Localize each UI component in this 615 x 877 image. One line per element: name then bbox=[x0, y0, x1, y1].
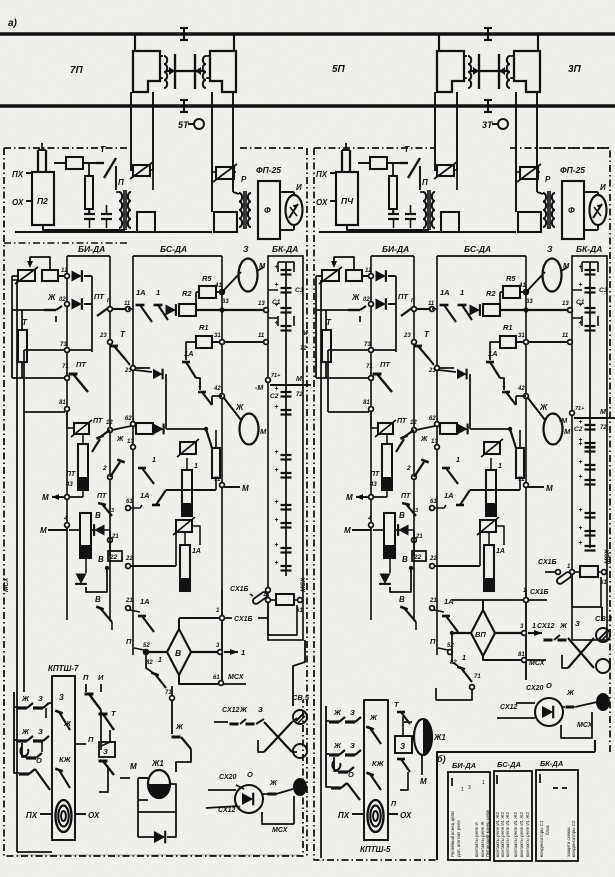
meter I bbox=[590, 195, 607, 225]
svg-text:ПТ: ПТ bbox=[94, 292, 105, 301]
insulated joint marks bbox=[183, 27, 185, 41]
wire row 81 bbox=[24, 411, 65, 413]
svg-text:КЖ: КЖ bbox=[59, 755, 72, 764]
vertical resistor black PT bbox=[382, 444, 392, 490]
svg-text:КПТШ-5: КПТШ-5 bbox=[360, 845, 391, 854]
contact under Zh bbox=[44, 309, 56, 311]
terminal 13 bbox=[264, 308, 269, 313]
svg-text:23: 23 bbox=[99, 333, 107, 339]
diode at 23 row bbox=[135, 370, 152, 372]
panel border left bbox=[4, 148, 303, 856]
svg-text:конденсаторы С2: конденсаторы С2 bbox=[571, 820, 576, 857]
MCX row right bbox=[522, 658, 527, 663]
svg-text:71+: 71+ bbox=[271, 373, 281, 379]
contact 1A mid bbox=[186, 342, 196, 360]
adjustable resistor PT bbox=[378, 423, 393, 434]
svg-text:R2: R2 bbox=[486, 289, 496, 298]
svg-text:Ж: Ж bbox=[566, 688, 575, 697]
feedback arrow bbox=[30, 257, 50, 270]
wire VP top to CX1B bbox=[482, 600, 484, 610]
KPTSh-5 motor rings bbox=[368, 800, 384, 832]
svg-text:31: 31 bbox=[214, 333, 221, 339]
SV hatched circle bbox=[293, 710, 307, 724]
svg-text:З: З bbox=[243, 244, 249, 254]
vertical from diode bbox=[165, 374, 167, 429]
svg-text:Ж: Ж bbox=[21, 727, 30, 736]
KPTSh-7 box bbox=[52, 676, 75, 840]
svg-text:О: О bbox=[546, 681, 552, 690]
svg-text:М: М bbox=[130, 762, 137, 771]
transformer R windings bbox=[239, 193, 242, 227]
terminal 41 bbox=[220, 290, 225, 295]
wire 73 row bbox=[373, 349, 396, 351]
terminal 33 bbox=[219, 307, 224, 312]
svg-text:23: 23 bbox=[124, 368, 132, 374]
contact 1A bbox=[440, 304, 449, 307]
wires Zh1 bbox=[138, 778, 148, 800]
svg-text:В: В bbox=[175, 648, 181, 658]
svg-text:П: П bbox=[88, 735, 94, 744]
terminal 81 bbox=[369, 407, 374, 412]
svg-text:22: 22 bbox=[109, 554, 118, 561]
wire v1 bbox=[395, 276, 397, 352]
terminal 12 bbox=[369, 274, 374, 279]
svg-text:1: 1 bbox=[241, 648, 245, 657]
svg-text:73: 73 bbox=[364, 342, 371, 348]
wire left drop bbox=[12, 275, 18, 277]
feedback arrow bbox=[334, 257, 354, 270]
choke transformer left box bbox=[133, 51, 160, 92]
svg-text:Ж: Ж bbox=[351, 293, 360, 302]
svg-text:Ж: Ж bbox=[116, 436, 124, 443]
svg-text:1А: 1А bbox=[496, 548, 505, 555]
svg-text:3: 3 bbox=[59, 692, 64, 702]
svg-text:4: 4 bbox=[63, 516, 68, 522]
wire 71 down right bbox=[436, 688, 472, 700]
svg-text:П: П bbox=[422, 178, 428, 187]
svg-text:4: 4 bbox=[367, 516, 372, 522]
svg-text:12: 12 bbox=[365, 268, 372, 274]
svg-text:Ж: Ж bbox=[369, 713, 378, 722]
svg-text:Ж: Ж bbox=[175, 722, 184, 731]
contact 2 bbox=[414, 462, 424, 477]
BK bank spine wire bbox=[589, 262, 591, 548]
M exit mid bbox=[224, 486, 240, 488]
svg-text:Ж: Ж bbox=[539, 403, 548, 412]
svg-text:+: + bbox=[578, 282, 582, 289]
contact V2 bbox=[400, 607, 408, 610]
svg-text:П: П bbox=[430, 637, 436, 646]
contact under Zh bbox=[348, 309, 360, 311]
node under bbox=[409, 566, 413, 570]
capacitor above feed box bbox=[341, 150, 343, 172]
svg-text:21: 21 bbox=[429, 598, 437, 604]
terminal 13 bbox=[568, 308, 573, 313]
svg-text:СХ20: СХ20 bbox=[526, 685, 544, 692]
arrow right VP bbox=[528, 632, 542, 634]
wire row 618 bbox=[130, 610, 140, 612]
resistor input bbox=[42, 270, 58, 281]
svg-text:Релейный конец цепи: Релейный конец цепи bbox=[449, 811, 455, 857]
wire 31 to BK bbox=[224, 341, 268, 343]
svg-text:контакты реле И1 Ж2: контакты реле И1 Ж2 bbox=[525, 812, 530, 857]
svg-text:+: + bbox=[274, 542, 278, 549]
diode d1 bbox=[376, 270, 386, 282]
svg-text:71+: 71+ bbox=[575, 406, 585, 412]
svg-text:И: И bbox=[296, 183, 302, 192]
svg-text:СХ1Б: СХ1Б bbox=[230, 586, 249, 593]
svg-text:З: З bbox=[350, 708, 355, 717]
svg-text:СХ1Б: СХ1Б bbox=[530, 589, 549, 596]
svg-text:+: + bbox=[274, 499, 278, 506]
wire 62 row bbox=[416, 426, 435, 430]
terminal 31 bbox=[220, 340, 225, 345]
svg-text:7П: 7П bbox=[70, 65, 84, 76]
wires down from joint bbox=[434, 92, 436, 171]
terminal 21 bbox=[108, 538, 113, 543]
svg-text:ПХ: ПХ bbox=[338, 811, 350, 820]
svg-text:5П: 5П bbox=[332, 64, 346, 75]
SV open circle bbox=[293, 744, 307, 758]
wire row 71 bbox=[12, 377, 65, 379]
svg-text:R1: R1 bbox=[199, 323, 209, 332]
svg-text:31: 31 bbox=[518, 333, 525, 339]
wires to VP diamond bbox=[452, 632, 471, 634]
filter to meter wires bbox=[584, 191, 598, 193]
terminal 71 bk bbox=[570, 411, 575, 416]
svg-text:1: 1 bbox=[198, 382, 202, 389]
svg-text:контакты реле И1 Ж2: контакты реле И1 Ж2 bbox=[513, 812, 518, 857]
panel divider dashed bbox=[4, 242, 128, 244]
wire Z to 41 bbox=[224, 272, 241, 290]
svg-text:72: 72 bbox=[300, 346, 307, 352]
long rails left panel bbox=[16, 280, 18, 852]
svg-text:ПТ: ПТ bbox=[401, 493, 411, 500]
vertical resistor T bbox=[322, 330, 331, 362]
svg-text:22: 22 bbox=[413, 554, 422, 561]
BK-DA capacitor C3 bbox=[277, 262, 279, 272]
svg-text:Ж: Ж bbox=[559, 621, 568, 630]
svg-text:СХ20: СХ20 bbox=[219, 774, 237, 781]
svg-text:+: + bbox=[274, 517, 278, 524]
resistor right of 62 bbox=[440, 423, 457, 434]
svg-text:В: В bbox=[95, 511, 101, 520]
contact PT-11 bbox=[112, 308, 126, 310]
block BI-DA right edge bbox=[109, 256, 111, 620]
svg-text:43: 43 bbox=[369, 482, 377, 488]
svg-text:БС-ДА: БС-ДА bbox=[497, 760, 521, 769]
wires down from joint bbox=[130, 92, 132, 171]
svg-text:23: 23 bbox=[403, 333, 411, 339]
terminal PT12 bbox=[108, 428, 113, 433]
transformer vertical 2 black bbox=[484, 545, 494, 591]
svg-text:контакты реле И1 Ж2: контакты реле И1 Ж2 bbox=[519, 812, 524, 857]
table BK-DA contents bbox=[539, 774, 541, 783]
track side box left bbox=[137, 212, 155, 232]
resistor top bbox=[66, 157, 83, 169]
svg-text:71: 71 bbox=[366, 364, 373, 370]
transformer P windings bbox=[423, 192, 426, 228]
svg-text:-М: -М bbox=[255, 385, 263, 392]
svg-text:Питающий конец цепи: Питающий конец цепи bbox=[484, 810, 490, 857]
svg-text:Ж: Ж bbox=[269, 778, 278, 787]
terminal 02 bbox=[65, 302, 70, 307]
svg-text:И: И bbox=[98, 673, 104, 682]
contact PT 71 bbox=[69, 373, 78, 376]
terminal 22 box bbox=[108, 551, 122, 561]
adjustable resistor track right bbox=[216, 167, 234, 179]
svg-text:БК-ДА: БК-ДА bbox=[576, 244, 602, 254]
svg-text:ОХ: ОХ bbox=[88, 811, 100, 820]
svg-text:СХ1Б: СХ1Б bbox=[538, 559, 557, 566]
svg-text:М: М bbox=[564, 427, 571, 436]
adjustable resistor input bbox=[18, 270, 35, 281]
svg-text:+: + bbox=[274, 449, 278, 456]
svg-text:02: 02 bbox=[363, 297, 370, 303]
svg-text:ПТ: ПТ bbox=[97, 493, 107, 500]
diode row 62 bbox=[458, 424, 468, 435]
wires to V diamond bbox=[148, 651, 167, 653]
M 72 exit bbox=[574, 417, 607, 419]
contact T bbox=[96, 162, 104, 164]
box below resistor bbox=[572, 574, 601, 607]
resistor right of 62 bbox=[136, 423, 153, 434]
svg-text:3Т: 3Т bbox=[482, 120, 494, 130]
svg-text:Ж: Ж bbox=[235, 403, 244, 412]
transformer vertical 1 black bbox=[182, 470, 192, 516]
diode lower bbox=[75, 574, 87, 584]
svg-text:СХ12: СХ12 bbox=[222, 707, 240, 714]
svg-text:ПХ: ПХ bbox=[316, 170, 328, 179]
svg-text:21: 21 bbox=[111, 534, 119, 540]
table BS-DA contents bbox=[496, 775, 498, 784]
svg-text:О: О bbox=[247, 770, 253, 779]
svg-text:З: З bbox=[258, 705, 263, 714]
vertical resistor black PT bbox=[78, 444, 88, 490]
svg-text:М: М bbox=[546, 484, 553, 493]
svg-text:+: + bbox=[274, 302, 278, 309]
diode d3 bbox=[470, 304, 480, 316]
transformer vertical 2 black bbox=[180, 545, 190, 591]
svg-text:Т: Т bbox=[404, 144, 410, 154]
svg-text:контакты реле И: контакты реле И bbox=[474, 822, 479, 857]
svg-text:БК-ДА: БК-ДА bbox=[272, 244, 298, 254]
block BK-DA box bbox=[572, 256, 607, 640]
svg-text:З: З bbox=[575, 619, 580, 628]
svg-text:72: 72 bbox=[600, 425, 607, 431]
svg-text:2: 2 bbox=[406, 465, 411, 472]
svg-text:13: 13 bbox=[258, 301, 265, 307]
svg-text:1А: 1А bbox=[140, 491, 150, 500]
feed box ПЧ bbox=[330, 172, 336, 174]
svg-text:МСХ: МСХ bbox=[604, 549, 611, 564]
relay Zh1 right bbox=[414, 719, 432, 755]
wire 31 to BK bbox=[528, 341, 572, 343]
svg-text:61: 61 bbox=[213, 675, 220, 681]
svg-text:БС-ДА: БС-ДА bbox=[464, 244, 491, 254]
svg-text:ПХ: ПХ bbox=[12, 170, 24, 179]
svg-text:R1: R1 bbox=[503, 323, 513, 332]
wire left drop bbox=[316, 275, 322, 277]
svg-text:БИ-ДА: БИ-ДА bbox=[452, 761, 476, 770]
bottom resistor bk bbox=[266, 598, 271, 603]
terminal 21 row bbox=[126, 606, 131, 611]
svg-text:1: 1 bbox=[532, 623, 536, 630]
vertical resistor black M bbox=[384, 513, 395, 558]
capacitor bottom 2 bbox=[101, 213, 112, 215]
transformer R windings bbox=[543, 193, 546, 227]
node under bbox=[105, 566, 109, 570]
svg-text:П: П bbox=[83, 673, 89, 682]
svg-text:1: 1 bbox=[194, 463, 198, 470]
svg-text:1: 1 bbox=[456, 457, 460, 464]
SV filled circle bbox=[293, 778, 307, 796]
wire row 566 bbox=[130, 565, 176, 567]
svg-text:42: 42 bbox=[517, 386, 525, 392]
contacts CX12 right bbox=[544, 639, 553, 642]
svg-text:СХ12: СХ12 bbox=[218, 807, 236, 814]
svg-text:12: 12 bbox=[61, 268, 68, 274]
terminal 71 below MCX bbox=[170, 696, 175, 701]
svg-text:1: 1 bbox=[482, 780, 485, 786]
svg-text:М: М bbox=[420, 777, 427, 786]
svg-text:61: 61 bbox=[430, 499, 437, 505]
feed box П2 bbox=[26, 172, 32, 174]
svg-text:БИ-ДА: БИ-ДА bbox=[382, 244, 409, 254]
block BK-DA box bbox=[268, 256, 303, 640]
svg-text:61: 61 bbox=[126, 499, 133, 505]
svg-text:П2: П2 bbox=[37, 196, 48, 206]
svg-text:ПТ: ПТ bbox=[398, 292, 409, 301]
SV3 filled circle bbox=[596, 693, 610, 711]
block BI-DA left edge bbox=[370, 256, 372, 620]
terminal 42 bbox=[524, 394, 529, 399]
svg-text:+: + bbox=[274, 560, 278, 567]
svg-text:ПТ: ПТ bbox=[93, 418, 103, 425]
equipment band bottom wire bbox=[319, 231, 516, 233]
terminal 71 left bbox=[65, 376, 70, 381]
svg-text:21: 21 bbox=[415, 534, 423, 540]
diode d1 bbox=[72, 270, 82, 282]
svg-text:11: 11 bbox=[258, 333, 265, 339]
svg-text:доп. контакт реле: доп. контакт реле bbox=[456, 820, 461, 857]
diode row 62 bbox=[154, 424, 164, 435]
contact PT-11 bbox=[416, 308, 430, 310]
svg-text:+: + bbox=[578, 441, 582, 448]
svg-text:ПТ: ПТ bbox=[370, 471, 380, 478]
svg-text:12: 12 bbox=[106, 420, 113, 426]
svg-text:+: + bbox=[578, 507, 582, 514]
svg-text:БК-ДА: БК-ДА bbox=[540, 759, 563, 768]
svg-text:Ж: Ж bbox=[333, 741, 342, 750]
capacitor bottom 1 bbox=[84, 213, 95, 215]
adjustable resistor PT bbox=[74, 423, 89, 434]
svg-text:72: 72 bbox=[214, 477, 221, 483]
adjustable resistor tx2 bbox=[480, 520, 496, 532]
svg-text:М: М bbox=[296, 376, 302, 383]
svg-text:ПТ: ПТ bbox=[76, 360, 87, 369]
BK-DA capacitor C3 bbox=[581, 262, 583, 272]
svg-text:-М: -М bbox=[559, 418, 567, 425]
svg-text:С2: С2 bbox=[270, 393, 279, 400]
svg-text:ПТ: ПТ bbox=[380, 360, 391, 369]
svg-text:ПТ: ПТ bbox=[397, 418, 407, 425]
terminal 73 left bbox=[65, 348, 70, 353]
svg-text:ПХ: ПХ bbox=[26, 811, 38, 820]
contact 1A mid bbox=[490, 342, 500, 360]
joint connector bars bbox=[174, 54, 176, 89]
svg-text:В: В bbox=[399, 511, 405, 520]
terminal 42 bbox=[220, 394, 225, 399]
svg-text:1А: 1А bbox=[192, 548, 201, 555]
svg-text:71: 71 bbox=[474, 674, 481, 680]
svg-text:23: 23 bbox=[428, 368, 436, 374]
svg-text:СВ.5: СВ.5 bbox=[292, 693, 310, 702]
wire row 618 bbox=[434, 610, 444, 612]
svg-text:11: 11 bbox=[562, 333, 569, 339]
wire row 71 bbox=[316, 377, 369, 379]
svg-text:ФП-25: ФП-25 bbox=[560, 165, 585, 175]
svg-text:И: И bbox=[600, 183, 606, 192]
choke winding right bbox=[507, 56, 510, 88]
SV3 hatched circle bbox=[596, 628, 610, 642]
svg-text:+: + bbox=[578, 459, 582, 466]
wire 62 row bbox=[112, 426, 131, 430]
vertical resistor bbox=[85, 176, 93, 209]
block BI-DA left edge bbox=[66, 256, 68, 620]
svg-text:Р: Р bbox=[241, 175, 247, 184]
terminal 41 bbox=[524, 290, 529, 295]
svg-text:81: 81 bbox=[363, 400, 370, 406]
joint connector bars bbox=[478, 54, 480, 89]
svg-text:1: 1 bbox=[460, 288, 464, 297]
svg-text:ОХ: ОХ bbox=[400, 811, 412, 820]
terminal 11b bbox=[264, 340, 269, 345]
resistor input bbox=[346, 270, 362, 281]
svg-text:R5: R5 bbox=[506, 274, 516, 283]
svg-text:33: 33 bbox=[222, 299, 229, 305]
wire top feed bbox=[54, 162, 66, 164]
contact T2 bbox=[110, 345, 118, 348]
wire left col top bbox=[316, 276, 348, 310]
wire v1 bbox=[91, 276, 93, 352]
vertical resistor right col bbox=[516, 448, 524, 478]
svg-text:1: 1 bbox=[152, 457, 156, 464]
wire 33 to BK bbox=[224, 309, 268, 311]
track side box left bbox=[441, 212, 459, 232]
contact PT12 bbox=[400, 435, 407, 438]
diode lower bbox=[379, 574, 391, 584]
terminal 72 bbox=[220, 483, 225, 488]
KPTSh-5 box bbox=[364, 700, 388, 840]
terminal 02 bbox=[369, 302, 374, 307]
svg-text:2: 2 bbox=[102, 465, 107, 472]
capacitor bottom 1 bbox=[388, 213, 399, 215]
svg-text:1А: 1А bbox=[444, 491, 454, 500]
vertical from diode bbox=[469, 374, 471, 429]
choke winding left bbox=[468, 56, 471, 88]
terminal 23 right bbox=[435, 366, 440, 371]
filter FP-25 box bbox=[562, 181, 584, 239]
contact PT to p bbox=[97, 308, 108, 316]
svg-text:+: + bbox=[274, 404, 278, 411]
svg-text:М: М bbox=[42, 493, 49, 502]
svg-text:1: 1 bbox=[502, 382, 506, 389]
diode d2 bbox=[72, 298, 82, 310]
svg-text:1А: 1А bbox=[136, 288, 146, 297]
terminal 62 bbox=[435, 422, 440, 427]
wire 42 to Zh bbox=[224, 398, 241, 420]
